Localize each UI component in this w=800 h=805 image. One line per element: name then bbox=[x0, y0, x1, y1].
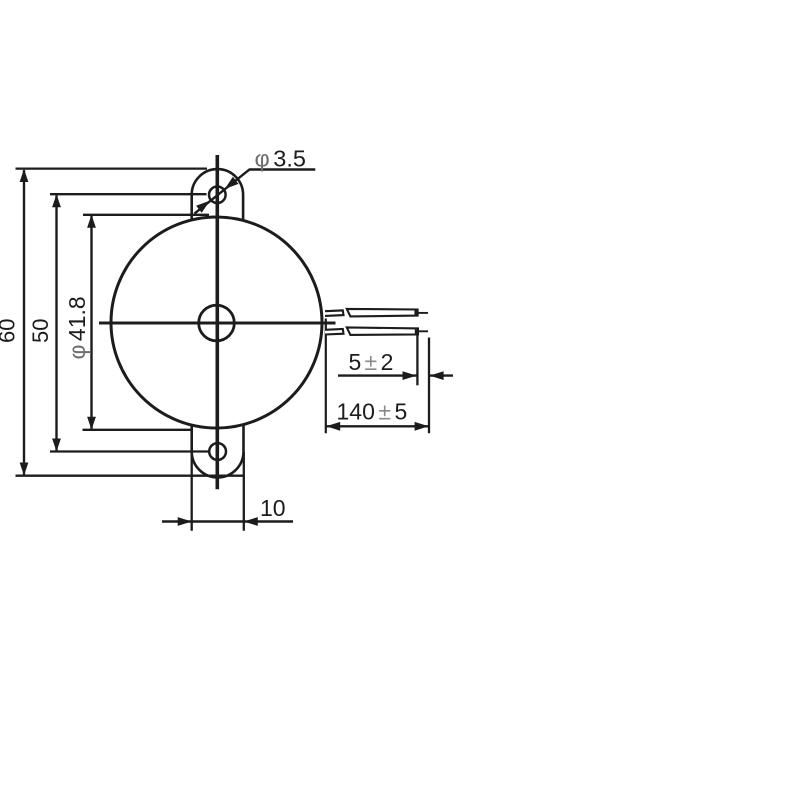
dia3.5 leader arrow lower bbox=[196, 201, 210, 213]
dimension dia41.8 top extension line bbox=[83, 214, 209, 216]
svg-text:φ41.8: φ41.8 bbox=[64, 296, 90, 359]
bottom mounting tab bbox=[192, 424, 244, 477]
top tab hole bbox=[209, 187, 226, 204]
upper wire bare tip bbox=[418, 312, 428, 314]
extension line wire tip right bbox=[428, 338, 430, 434]
dimension 140pm5 line bbox=[326, 425, 428, 427]
svg-text:10: 10 bbox=[260, 495, 286, 521]
dimension dia41.8 line with arrows bbox=[90, 216, 92, 429]
lower wire bare tip bbox=[418, 330, 428, 332]
dimension 10 line bbox=[162, 520, 293, 522]
buzzer body circle bbox=[111, 217, 322, 428]
svg-text:50: 50 bbox=[28, 319, 53, 343]
dia3.5 leader arrow upper bbox=[225, 177, 239, 189]
dimension 50 bottom extension line bbox=[50, 450, 209, 452]
lower wire insulated body bbox=[347, 327, 418, 335]
dimension 10 left extension line bbox=[191, 425, 193, 531]
dimension 50 top extension line bbox=[50, 193, 207, 195]
vertical centerline bbox=[216, 155, 220, 489]
svg-text:140±5: 140±5 bbox=[337, 399, 408, 425]
dimension 10 right extension line bbox=[243, 452, 245, 531]
top mounting tab bbox=[192, 169, 243, 221]
dimension 50 line with arrows bbox=[55, 195, 57, 450]
dimension 5pm2 line bbox=[338, 374, 417, 376]
center sound hole bbox=[199, 305, 235, 341]
dimension 60 line with arrows bbox=[23, 170, 25, 475]
svg-text:60: 60 bbox=[0, 319, 20, 343]
svg-text:5±2: 5±2 bbox=[349, 349, 394, 375]
upper wire insulated body bbox=[347, 309, 418, 317]
upper wire stub bbox=[325, 310, 344, 316]
extension line 140 left bbox=[325, 319, 327, 434]
lower wire stub bbox=[325, 329, 344, 335]
bottom tab hole bbox=[209, 443, 226, 460]
dia3.5 leader line bbox=[195, 170, 316, 214]
extension line 5pm2 left bbox=[416, 334, 418, 386]
svg-text:φ3.5: φ3.5 bbox=[255, 146, 306, 172]
dimension 60 bottom extension line bbox=[16, 475, 245, 477]
horizontal centerline bbox=[99, 322, 336, 325]
dimension dia41.8 bottom extension line bbox=[83, 429, 193, 431]
dimension 60 top extension line bbox=[16, 167, 208, 169]
